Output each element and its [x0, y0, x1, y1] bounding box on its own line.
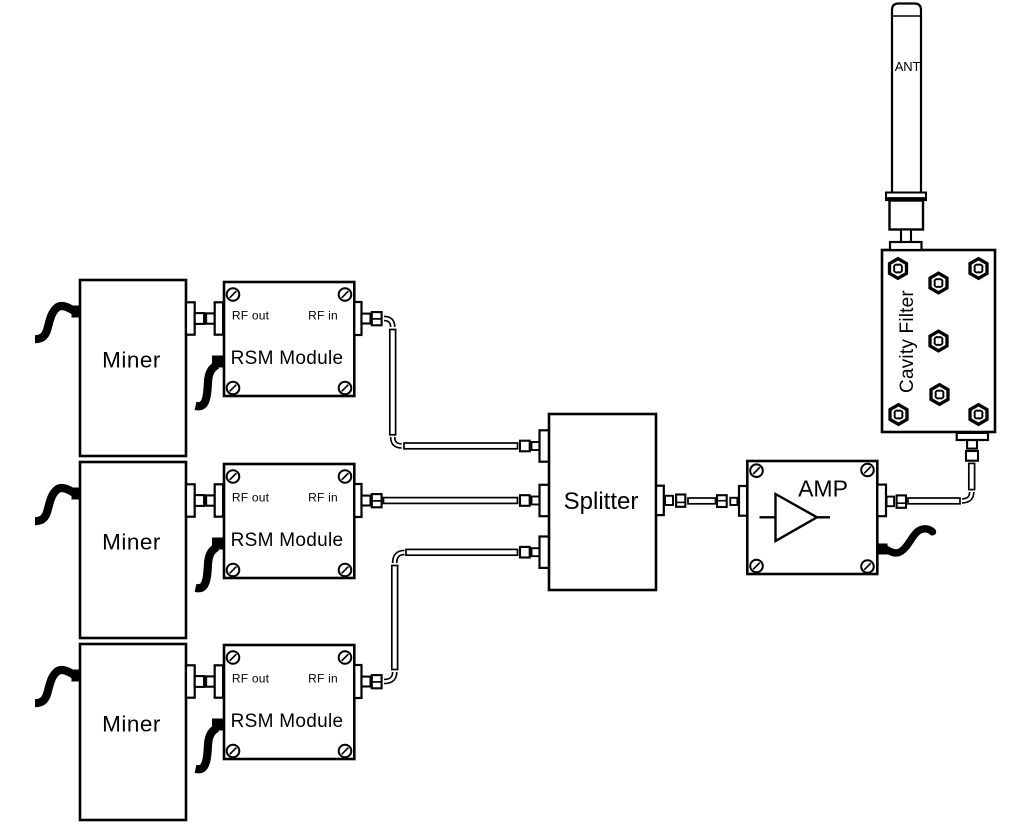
coax cable RSM 3 : top elbow — [395, 553, 405, 564]
svg-text:RF out: RF out — [232, 309, 270, 323]
cavity filter — [882, 250, 995, 432]
power cable AMP — [885, 529, 933, 553]
corner screws RSM 3 — [227, 651, 352, 757]
power connector miner 2 — [72, 488, 81, 500]
splitter — [549, 414, 656, 590]
RSM module 1 — [224, 282, 354, 396]
cavity filter bottom connector — [957, 433, 988, 461]
antenna collar — [886, 193, 926, 201]
splitter input port 1 — [520, 430, 550, 461]
coax cable RSM 3 : horizontal segment — [406, 549, 518, 555]
miner 3 — [80, 644, 186, 820]
svg-text:RF in: RF in — [308, 672, 338, 686]
corner screws RSM 1 — [227, 288, 352, 394]
power connector miner 3 — [72, 670, 81, 682]
power cable miner 2 — [35, 488, 75, 521]
power connector AMP — [878, 544, 888, 555]
connector miner 1 to RSM 1 — [186, 302, 223, 334]
antenna stem connector — [890, 230, 922, 251]
svg-text:Miner: Miner — [102, 530, 161, 555]
coax cable RSM 1 to splitter port 1 : top elbow — [384, 319, 393, 328]
splitter output port — [656, 486, 685, 515]
coax cable RSM 1 : horizontal segment — [404, 443, 518, 449]
power connector miner 1 — [72, 306, 81, 318]
svg-text:Cavity Filter: Cavity Filter — [897, 290, 918, 393]
RSM module 3 — [224, 645, 354, 759]
miner 2 — [80, 462, 186, 638]
RSM module 2 — [224, 464, 354, 578]
AMP output connector — [877, 485, 906, 517]
antenna base block — [890, 201, 924, 230]
AMP input connector — [717, 486, 747, 516]
svg-text:Miner: Miner — [102, 712, 161, 737]
corner screws RSM 2 — [227, 470, 352, 576]
power cable miner 3 — [35, 670, 75, 703]
data cable miner 3 to RSM 3 — [196, 719, 225, 770]
svg-text:RF out: RF out — [232, 491, 270, 505]
power cable miner 1 — [35, 306, 75, 339]
svg-text:RSM Module: RSM Module — [231, 711, 344, 732]
miner 1 — [80, 280, 186, 456]
coax cable RSM 3 to splitter port 3 : bottom elbow — [384, 672, 395, 682]
splitter input port 2 — [520, 485, 550, 516]
svg-text:Miner: Miner — [102, 348, 161, 373]
coax cable RSM 3 : vertical segment — [392, 566, 398, 670]
connector miner 2 to RSM 2 — [186, 484, 223, 516]
data cable miner 2 to RSM 2 — [196, 538, 225, 589]
splitter input port 3 — [520, 537, 550, 568]
svg-text:ANT: ANT — [895, 59, 921, 74]
svg-text:RF in: RF in — [308, 491, 338, 505]
hex screws cavity filter — [890, 259, 987, 425]
svg-text:AMP: AMP — [798, 476, 848, 502]
data cable miner 1 to RSM 1 — [196, 356, 225, 407]
svg-text:Splitter: Splitter — [564, 488, 639, 515]
connector miner 3 to RSM 3 — [186, 665, 223, 697]
amplifier triangle symbol — [760, 494, 831, 541]
svg-text:RSM Module: RSM Module — [231, 348, 344, 369]
svg-text:RSM Module: RSM Module — [231, 530, 344, 551]
RF in connector RSM 3 — [354, 665, 381, 698]
RF in connector RSM 1 — [354, 302, 381, 335]
coax cable RSM 1 : bottom elbow — [393, 437, 402, 446]
RF in connector RSM 2 — [354, 484, 381, 517]
corner screws AMP — [750, 464, 874, 573]
coax cable RSM 1 : vertical segment — [390, 330, 396, 435]
svg-text:RF out: RF out — [232, 672, 270, 686]
coax cable AMP to cavity filter : elbow — [962, 492, 972, 501]
coax cable AMP to cavity filter : horizontal segment — [908, 498, 960, 504]
antenna ANT — [892, 4, 921, 194]
svg-text:RF in: RF in — [308, 309, 338, 323]
coax cable splitter to AMP — [688, 498, 716, 504]
amplifier AMP — [747, 461, 877, 574]
coax cable RSM 2 to splitter port 2 (straight) — [384, 498, 518, 504]
coax cable AMP to cavity filter : vertical segment — [969, 463, 975, 489]
